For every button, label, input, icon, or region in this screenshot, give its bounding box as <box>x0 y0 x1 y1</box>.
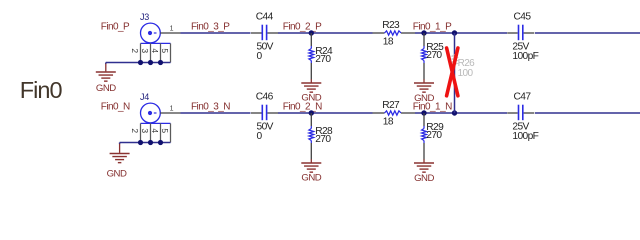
plates <box>261 105 263 121</box>
svg-text:C46: C46 <box>256 92 274 103</box>
pins <box>423 33 425 46</box>
center pin dot <box>148 31 152 35</box>
pins <box>507 32 518 34</box>
pin 2 <box>140 43 142 62</box>
capacitor C46 <box>251 92 278 142</box>
connector J3 <box>130 12 181 63</box>
plates <box>261 25 263 41</box>
junction <box>421 110 426 115</box>
svg-text:GND: GND <box>107 169 127 180</box>
svg-text:18: 18 <box>383 117 394 128</box>
svg-text:270: 270 <box>315 54 331 65</box>
resistor R23 <box>373 20 416 48</box>
svg-text:Fin0_3_N: Fin0_3_N <box>191 102 230 113</box>
capacitor C44 <box>251 12 278 62</box>
ground <box>301 159 321 183</box>
resistor R29 <box>422 113 445 160</box>
svg-text:100: 100 <box>458 68 474 79</box>
svg-text:J4: J4 <box>140 92 149 102</box>
svg-text:J3: J3 <box>140 12 149 22</box>
body <box>423 126 425 129</box>
resistor R26 (not fitted) <box>452 55 475 80</box>
pin 1 <box>160 112 180 114</box>
pin 5 <box>170 123 172 142</box>
svg-text:Fin0: Fin0 <box>20 77 63 103</box>
junction <box>138 60 143 65</box>
svg-text:Fin0_1_N: Fin0_1_N <box>413 102 452 113</box>
svg-text:5: 5 <box>160 48 170 53</box>
svg-text:270: 270 <box>315 134 331 145</box>
svg-text:GND: GND <box>96 83 116 94</box>
wire net Fin0_1_P <box>415 32 507 34</box>
pin 1 <box>160 32 180 34</box>
pin 4 <box>160 123 162 142</box>
svg-text:C47: C47 <box>514 92 532 103</box>
svg-text:100pF: 100pF <box>512 131 538 142</box>
svg-text:1: 1 <box>170 105 174 112</box>
pins <box>251 112 262 114</box>
shield circle <box>141 23 161 43</box>
svg-text:3: 3 <box>140 128 150 133</box>
ground <box>96 63 116 95</box>
svg-text:R23: R23 <box>382 20 400 31</box>
wire output segment <box>535 112 640 114</box>
junction <box>452 110 457 115</box>
junction <box>452 30 457 35</box>
capacitor C45 <box>507 12 538 62</box>
svg-text:270: 270 <box>426 130 442 141</box>
resistor R28 <box>309 113 333 160</box>
svg-text:4: 4 <box>150 128 160 133</box>
pins <box>310 113 312 126</box>
svg-text:GND: GND <box>414 173 434 184</box>
svg-text:2: 2 <box>130 128 140 133</box>
pins <box>251 32 262 34</box>
svg-text:Fin0_2_P: Fin0_2_P <box>283 22 322 33</box>
wire net Fin0_3_N <box>181 112 251 114</box>
pin 3 <box>150 123 152 142</box>
ground <box>414 79 434 104</box>
svg-text:100pF: 100pF <box>512 51 538 62</box>
wire net Fin0_2_N <box>278 112 373 114</box>
resistor R25 <box>422 33 445 80</box>
junction <box>138 140 143 145</box>
svg-text:3: 3 <box>140 48 150 53</box>
wire net Fin0_2_P <box>278 32 373 34</box>
connector J4 <box>130 92 181 143</box>
svg-text:2: 2 <box>130 48 140 53</box>
body <box>310 126 312 129</box>
pins <box>423 113 425 126</box>
connector body bar <box>141 122 171 124</box>
svg-text:18: 18 <box>383 37 394 48</box>
pin 4 <box>160 43 162 62</box>
svg-text:270: 270 <box>426 50 442 61</box>
pin 5 <box>170 43 172 62</box>
ground <box>414 159 434 184</box>
wire connector shield to ground <box>120 142 171 144</box>
svg-text:Fin0_2_N: Fin0_2_N <box>283 102 322 113</box>
junction <box>158 140 163 145</box>
plates <box>518 25 520 41</box>
no-fit cross <box>447 48 458 96</box>
svg-text:Fin0_1_P: Fin0_1_P <box>413 22 452 33</box>
wire output segment <box>535 32 640 34</box>
junction <box>309 110 314 115</box>
junction <box>421 30 426 35</box>
plates <box>518 105 520 121</box>
pins <box>373 32 385 34</box>
capacitor C47 <box>507 92 538 142</box>
svg-text:Fin0_N: Fin0_N <box>101 102 130 113</box>
pins <box>310 33 312 46</box>
resistor R24 <box>309 33 333 80</box>
resistor R27 <box>373 100 416 128</box>
wire connector shield to ground <box>106 62 171 64</box>
center pin dot <box>148 111 152 115</box>
svg-text:R27: R27 <box>382 100 400 111</box>
svg-text:1: 1 <box>170 25 174 32</box>
ground <box>107 143 130 180</box>
junction <box>309 30 314 35</box>
wire net Fin0_1_N <box>415 112 507 114</box>
connector body bar <box>141 42 171 44</box>
body <box>423 46 425 49</box>
svg-text:GND: GND <box>301 172 321 183</box>
pins <box>507 112 518 114</box>
wire net Fin0_1_P to Fin0_1_N vertical <box>454 33 456 113</box>
svg-text:C44: C44 <box>256 12 274 23</box>
junction <box>148 140 153 145</box>
junction <box>158 60 163 65</box>
svg-text:Fin0_P: Fin0_P <box>101 22 130 33</box>
svg-text:C45: C45 <box>514 12 532 23</box>
body <box>310 46 312 49</box>
svg-text:Fin0_3_P: Fin0_3_P <box>191 22 230 33</box>
junction <box>148 60 153 65</box>
shield circle <box>141 103 161 123</box>
svg-text:5: 5 <box>160 128 170 133</box>
body <box>385 31 402 35</box>
svg-text:4: 4 <box>150 48 160 53</box>
wire net Fin0_3_P <box>181 32 251 34</box>
ground <box>301 79 321 103</box>
body <box>385 111 402 115</box>
pin 2 <box>140 123 142 142</box>
pins <box>373 112 385 114</box>
pin 3 <box>150 43 152 62</box>
